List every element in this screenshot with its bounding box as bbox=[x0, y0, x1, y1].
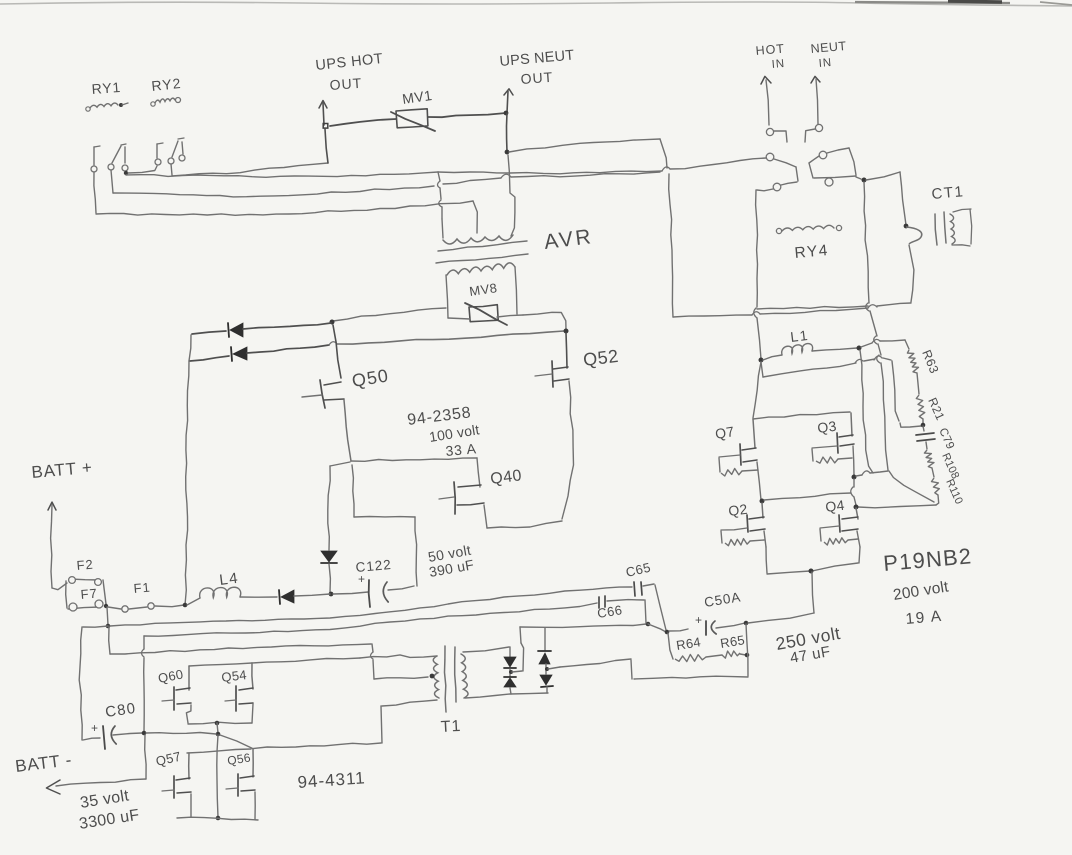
svg-text:L4: L4 bbox=[218, 570, 240, 589]
wire T1 secondary top bbox=[463, 647, 509, 652]
diode D down (to C122 bus) bbox=[321, 551, 337, 593]
svg-text:+: + bbox=[91, 721, 99, 735]
svg-text:Q4: Q4 bbox=[824, 497, 845, 515]
wire bus D (contact1 to AVR center tap) bbox=[94, 172, 473, 215]
node F1-L4 junction bbox=[183, 603, 188, 608]
contact circle 5 bbox=[168, 158, 174, 164]
arrow BATT+ bbox=[48, 502, 67, 590]
svg-text:IN: IN bbox=[818, 57, 832, 70]
label 250 volt bbox=[774, 623, 842, 654]
inductor L4 bbox=[187, 587, 277, 605]
diode D upper (points left) bbox=[192, 323, 331, 337]
wire bottom return to D3-D4 bbox=[560, 659, 748, 679]
wire Q50 source staircase bbox=[352, 465, 417, 586]
wire bus C66-C65 link bbox=[648, 624, 666, 632]
wire C66 branch vertical bbox=[142, 636, 145, 731]
fuse F1 clips bbox=[108, 603, 184, 612]
node source edge mid bbox=[215, 721, 220, 726]
node Q57-Q56 source mid bbox=[216, 816, 221, 821]
diode D1 (down) bbox=[504, 647, 516, 668]
wire Q60-Q54 source edge bbox=[188, 722, 252, 724]
wire AVR left drop bbox=[438, 172, 443, 219]
svg-text:+: + bbox=[358, 572, 366, 586]
contact circle (neut fixed) bbox=[825, 178, 833, 186]
label R64 bbox=[675, 634, 702, 653]
capacitor C65 bbox=[634, 582, 666, 630]
wire F-box to bus2 bbox=[107, 607, 108, 625]
relay coil RY4 bbox=[776, 225, 841, 233]
label UPS HOT bbox=[315, 51, 384, 74]
wire bus2 down to bus3b bbox=[109, 627, 110, 654]
wire bus2 left corner bbox=[79, 626, 108, 740]
wire AVR center tap bbox=[473, 201, 477, 233]
label 100 volt bbox=[428, 421, 481, 445]
wire NEUT IN hook bbox=[805, 129, 815, 142]
winding T1 primary bbox=[433, 656, 439, 698]
label IN (hot) bbox=[771, 58, 785, 71]
label Q57 bbox=[154, 749, 182, 769]
label R108 bbox=[939, 451, 961, 481]
wire bridge top edge bbox=[753, 412, 850, 419]
wire C80 bus to T1 bottom bbox=[146, 700, 437, 749]
fuse holder F2/F7 box bbox=[66, 579, 106, 609]
node RY4 right top bbox=[862, 178, 867, 183]
resistor R110 bbox=[932, 478, 940, 505]
node C50A right bbox=[744, 621, 749, 626]
transistor Q4 bbox=[820, 508, 860, 547]
wire bus3b to T1 top bbox=[110, 644, 428, 679]
label 47 uF bbox=[789, 643, 832, 667]
arrow HOT IN bbox=[761, 76, 771, 125]
contact pole 1 bbox=[94, 146, 100, 165]
relay coil RY1 bbox=[86, 103, 128, 111]
node NEUT branch bbox=[505, 150, 510, 155]
label MV1 bbox=[401, 87, 433, 107]
label MV8 bbox=[468, 280, 498, 299]
winding T1 secondary bbox=[461, 654, 468, 698]
wire Q52 drain bbox=[566, 333, 567, 368]
svg-text:Q3: Q3 bbox=[816, 418, 837, 436]
wire below-L1 to R-chain bbox=[763, 356, 921, 427]
capacitor C80 bbox=[103, 726, 142, 749]
wire bus B (contact3 to AVR corner and relay blade) bbox=[126, 158, 766, 177]
label + (C80) bbox=[91, 721, 99, 735]
contact circle 3 bbox=[122, 165, 128, 171]
transistor Q40 bbox=[439, 482, 487, 528]
capacitor C122 bbox=[333, 580, 414, 607]
label C66 bbox=[596, 602, 623, 621]
core AVR bbox=[436, 241, 528, 263]
wire HOT IN hook bbox=[774, 131, 787, 142]
label C79 bbox=[936, 426, 956, 451]
fuse clip circle F7a bbox=[69, 603, 77, 611]
wire D3-D4 junction out bbox=[545, 667, 560, 671]
wire RY4 left side bbox=[756, 190, 758, 307]
label IN (neut) bbox=[818, 57, 832, 70]
wire bus C (contact2, hops AVR drop and NEUT vertical) bbox=[111, 170, 660, 197]
wire MV1 to NEUT node bbox=[428, 113, 506, 117]
label 200 volt bbox=[892, 578, 950, 604]
wire bus A (pair to UPS-HOT node) bbox=[171, 163, 328, 176]
contact pole 5 bbox=[172, 138, 184, 157]
label 35 volt bbox=[79, 787, 131, 812]
transistor Q3 bbox=[812, 413, 854, 475]
wire Q3 source link bbox=[856, 471, 888, 476]
wire MV8 left feed bbox=[333, 308, 446, 321]
node C80 junction bbox=[142, 731, 147, 736]
contact pole 2 bbox=[112, 144, 126, 163]
label UPS NEUT bbox=[499, 48, 575, 70]
diode at L4 (points left) bbox=[279, 590, 330, 604]
label C50A bbox=[703, 589, 742, 610]
varistor MV8 bbox=[448, 303, 523, 325]
wire Q60-Q54 drain edge bbox=[189, 658, 360, 666]
contact circle 1 bbox=[91, 166, 97, 172]
contact circle NEUT IN bbox=[815, 124, 822, 131]
node C122 left junction bbox=[329, 592, 334, 597]
node MV1-NEUT junction bbox=[504, 111, 509, 116]
diode D2 (up) bbox=[504, 669, 516, 694]
label L4 bbox=[218, 570, 240, 589]
wire bridge feed bbox=[753, 362, 761, 418]
relay coil RY2 bbox=[151, 98, 181, 107]
label T1 bbox=[440, 718, 462, 736]
resistor R108 bbox=[924, 450, 934, 477]
svg-text:+: + bbox=[695, 613, 703, 627]
svg-text:IN: IN bbox=[771, 58, 785, 71]
label C80 bbox=[104, 700, 137, 721]
diode D4 (down) bbox=[540, 675, 553, 693]
svg-text:OUT: OUT bbox=[520, 69, 554, 87]
label 33 A bbox=[445, 440, 478, 459]
wire Q50 drain bbox=[333, 325, 341, 378]
wire RY4 right side / V2 bbox=[864, 182, 934, 502]
node R21-C79 bbox=[921, 423, 926, 428]
resistor Q4 gate loop bbox=[820, 529, 858, 545]
svg-text:T1: T1 bbox=[440, 718, 462, 736]
resistor Q7 gate loop bbox=[719, 458, 758, 476]
capacitor C50A bbox=[669, 621, 745, 635]
node UPS HOT junction bbox=[323, 124, 328, 129]
resistor Q3 gate loop bbox=[812, 449, 852, 463]
label RY1 bbox=[91, 79, 121, 97]
wire lower diode bus to Q52 node bbox=[329, 331, 564, 345]
wire NEUT vertical to AVR bbox=[508, 155, 515, 236]
wire drain edge to T1 top bbox=[360, 655, 437, 658]
label BATT - bbox=[14, 750, 73, 776]
node T1 center tap bbox=[430, 674, 435, 679]
node C66 tap bbox=[646, 622, 651, 627]
node D1-D2 junction bbox=[509, 670, 513, 674]
wire D1-D2 junction to bus bbox=[512, 643, 524, 672]
label R65 bbox=[719, 632, 746, 651]
transistor Q57 bbox=[162, 753, 191, 817]
wire long left vertical (diodes to F1 bus) bbox=[185, 361, 189, 605]
contact circle 4 bbox=[155, 159, 161, 165]
varistor MV1 bbox=[391, 109, 435, 131]
wire Q50 source left stub bbox=[330, 462, 350, 466]
wire RY4 box bottom bbox=[757, 306, 868, 309]
svg-text:Q2: Q2 bbox=[727, 501, 748, 519]
label Q40 bbox=[489, 467, 523, 488]
wire armature to RY4 right bbox=[856, 177, 861, 179]
transistor Q7 bbox=[719, 419, 761, 500]
wire bus3a to C66 bbox=[144, 603, 597, 636]
label F7 bbox=[80, 586, 98, 602]
svg-text:OUT: OUT bbox=[329, 75, 363, 93]
fuse clip circle F2a bbox=[69, 577, 76, 584]
wire CT loop bbox=[906, 227, 922, 302]
svg-text:F2: F2 bbox=[76, 557, 94, 573]
svg-text:33 A: 33 A bbox=[445, 440, 478, 459]
wire stub vertical bbox=[328, 466, 330, 550]
resistor Q2 gate loop bbox=[721, 531, 764, 546]
contact circle HOT IN bbox=[766, 128, 773, 135]
node Q3 source junction bbox=[852, 475, 857, 480]
resistor R64-R65 branch bbox=[668, 633, 746, 662]
wire bridge bottom edge bbox=[766, 547, 860, 574]
arrow BATT- bbox=[46, 779, 146, 794]
wire L1 to R63 bbox=[861, 339, 905, 347]
label F2 bbox=[76, 557, 94, 573]
label Q54 bbox=[221, 667, 248, 685]
wire mid vertical lower bbox=[217, 735, 218, 817]
node Q52 drain junction bbox=[564, 329, 569, 334]
label Q56 bbox=[226, 750, 252, 768]
inductor L1 bbox=[763, 344, 857, 360]
wire bus to CT (lower) bbox=[673, 303, 911, 317]
arrow UPS NEUT OUT bbox=[504, 89, 513, 113]
label 50 volt bbox=[427, 542, 472, 565]
label + (C50A) bbox=[695, 613, 703, 627]
fuse clip circle F7b bbox=[95, 600, 103, 608]
label Q2 bbox=[727, 501, 748, 519]
svg-text:L1: L1 bbox=[789, 327, 809, 345]
wire RY4-left down to L1 bbox=[760, 359, 762, 360]
wire Q57-Q56 source edge bbox=[177, 817, 258, 820]
wire RY4 left hop bbox=[754, 308, 761, 359]
node F-box output bbox=[104, 604, 108, 608]
node C65 tap / R64 tap bbox=[665, 630, 670, 635]
svg-text:HOT: HOT bbox=[755, 41, 785, 58]
wire NEUT feed vertical (to RY4 bus) bbox=[660, 139, 673, 317]
winding AVR secondary (MV8 box top) bbox=[447, 263, 515, 275]
svg-text:Q7: Q7 bbox=[714, 423, 736, 442]
wire C80 left lead bbox=[83, 738, 100, 740]
label RY2 bbox=[151, 75, 182, 94]
wire Q40 source to Q52 source bbox=[487, 521, 562, 528]
svg-text:19 A: 19 A bbox=[905, 608, 943, 628]
wire bus2 to C65 bbox=[110, 587, 632, 626]
svg-text:F1: F1 bbox=[133, 580, 151, 596]
label C65 bbox=[624, 560, 652, 580]
label R110 bbox=[943, 477, 965, 506]
transistor Q52 bbox=[535, 361, 574, 519]
resistor R21 bbox=[916, 395, 925, 424]
core T1 bbox=[445, 646, 457, 712]
wire to RY4 left side bbox=[757, 189, 773, 191]
capacitor C79 bbox=[916, 426, 935, 449]
svg-text:Q54: Q54 bbox=[221, 667, 248, 685]
label Q7 bbox=[714, 423, 736, 442]
transistor Q56 bbox=[226, 749, 255, 819]
label CT1 bbox=[931, 183, 965, 203]
node Q7-Q2 mid bbox=[760, 499, 765, 504]
label RY4 bbox=[794, 242, 830, 262]
wire NEUT vertical upper bbox=[506, 113, 509, 152]
label Q3 bbox=[816, 418, 837, 436]
svg-text:RY1: RY1 bbox=[91, 79, 121, 97]
svg-text:RY4: RY4 bbox=[794, 242, 830, 262]
node CT loop top bbox=[904, 224, 909, 229]
junction under contact 3 bbox=[124, 171, 128, 175]
svg-text:RY2: RY2 bbox=[151, 75, 182, 94]
wire NEUT to RY4 corner bbox=[509, 139, 660, 152]
svg-text:CT1: CT1 bbox=[931, 183, 965, 203]
contact circle 2 bbox=[108, 164, 114, 170]
node Q4 drain junction bbox=[854, 505, 859, 510]
contact circle (hot fixed) bbox=[773, 183, 781, 191]
transistor Q50 bbox=[302, 380, 351, 461]
wire bridge mid column bbox=[851, 479, 856, 505]
label L1 bbox=[789, 327, 809, 345]
label 19 A bbox=[905, 608, 943, 628]
wire R110 return bbox=[858, 505, 936, 508]
label F1 bbox=[133, 580, 151, 596]
diode D3 (up) bbox=[538, 628, 551, 674]
label 3300 uF bbox=[78, 807, 141, 833]
scan edge artifact bbox=[0, 1, 1072, 6]
winding AVR primary bbox=[442, 219, 513, 244]
node Q50 drain junction bbox=[330, 320, 335, 325]
wire R65 vertical bbox=[746, 624, 748, 676]
wire MV8 box sides bbox=[446, 267, 517, 318]
label Q52 bbox=[582, 346, 620, 370]
wire MV8 right to Q52 node bbox=[523, 312, 566, 330]
node C80 bus junction bbox=[216, 732, 221, 737]
label + (C122) bbox=[358, 572, 366, 586]
wire V1 (L1 right down) bbox=[860, 350, 873, 473]
label HOT bbox=[755, 41, 785, 58]
relay RY4 armature (neut side) bbox=[809, 148, 856, 178]
label R21 bbox=[925, 396, 947, 423]
transistor Q60 bbox=[162, 666, 191, 723]
wire diode corner bbox=[189, 335, 191, 361]
node bus2 junction bbox=[106, 624, 111, 629]
diode D lower (points left) bbox=[190, 345, 329, 361]
wire RY4 right to CT corner bbox=[866, 172, 906, 225]
wire BATT- drop bbox=[145, 735, 146, 779]
wire to MV1 bbox=[330, 119, 396, 126]
wire Q50 source to Q40 drain bbox=[351, 458, 480, 487]
label OUT (ups neut) bbox=[520, 69, 554, 87]
label C122 bbox=[355, 557, 392, 575]
label Q50 bbox=[350, 365, 390, 391]
wire rectifier bus corner bbox=[520, 627, 521, 643]
relay RY4 blade (hot side) bbox=[766, 153, 798, 185]
label 94-4311 bbox=[297, 768, 366, 792]
arrow NEUT IN bbox=[811, 76, 820, 124]
label BATT + bbox=[31, 458, 94, 482]
arrow UPS HOT OUT bbox=[319, 101, 327, 126]
wire contact3 to contact4 bbox=[128, 166, 157, 173]
wire T1 secondary bottom bbox=[465, 693, 548, 698]
label Q60 bbox=[157, 666, 185, 686]
node bridge output bbox=[809, 569, 814, 574]
label Q4 bbox=[824, 497, 845, 515]
label R63 bbox=[919, 348, 941, 376]
wire mid vertical upper bbox=[217, 723, 218, 733]
resistor R63 bbox=[905, 340, 919, 394]
label 390 uF bbox=[428, 556, 475, 580]
node L1 left bbox=[759, 358, 764, 363]
wire bridge divider bbox=[764, 493, 851, 500]
wire Q57-Q56 drain edge bbox=[187, 749, 251, 753]
wire L1 left drop bbox=[761, 362, 763, 377]
label 94-2358 bbox=[406, 404, 472, 429]
transistor Q54 bbox=[225, 663, 253, 723]
label NEUT bbox=[810, 39, 847, 56]
wire bridge output to C50A bbox=[748, 572, 814, 623]
wire UPS HOT vertical bbox=[325, 129, 328, 163]
label AVR bbox=[543, 225, 595, 254]
node R65 right bbox=[745, 653, 750, 658]
contact pole 4 bbox=[157, 143, 163, 158]
current transformer CT1 bbox=[935, 209, 972, 246]
contact circle 6 bbox=[179, 155, 185, 161]
fuse clip circle F2b bbox=[95, 579, 102, 586]
wire rectifier mid bus bbox=[520, 624, 646, 627]
capacitor C66 bbox=[599, 596, 646, 623]
label OUT (ups hot) bbox=[329, 75, 363, 93]
label P19NB2 bbox=[882, 543, 973, 576]
svg-text:F7: F7 bbox=[80, 586, 98, 602]
node L1 right bbox=[857, 346, 862, 351]
transistor Q2 bbox=[721, 503, 766, 547]
